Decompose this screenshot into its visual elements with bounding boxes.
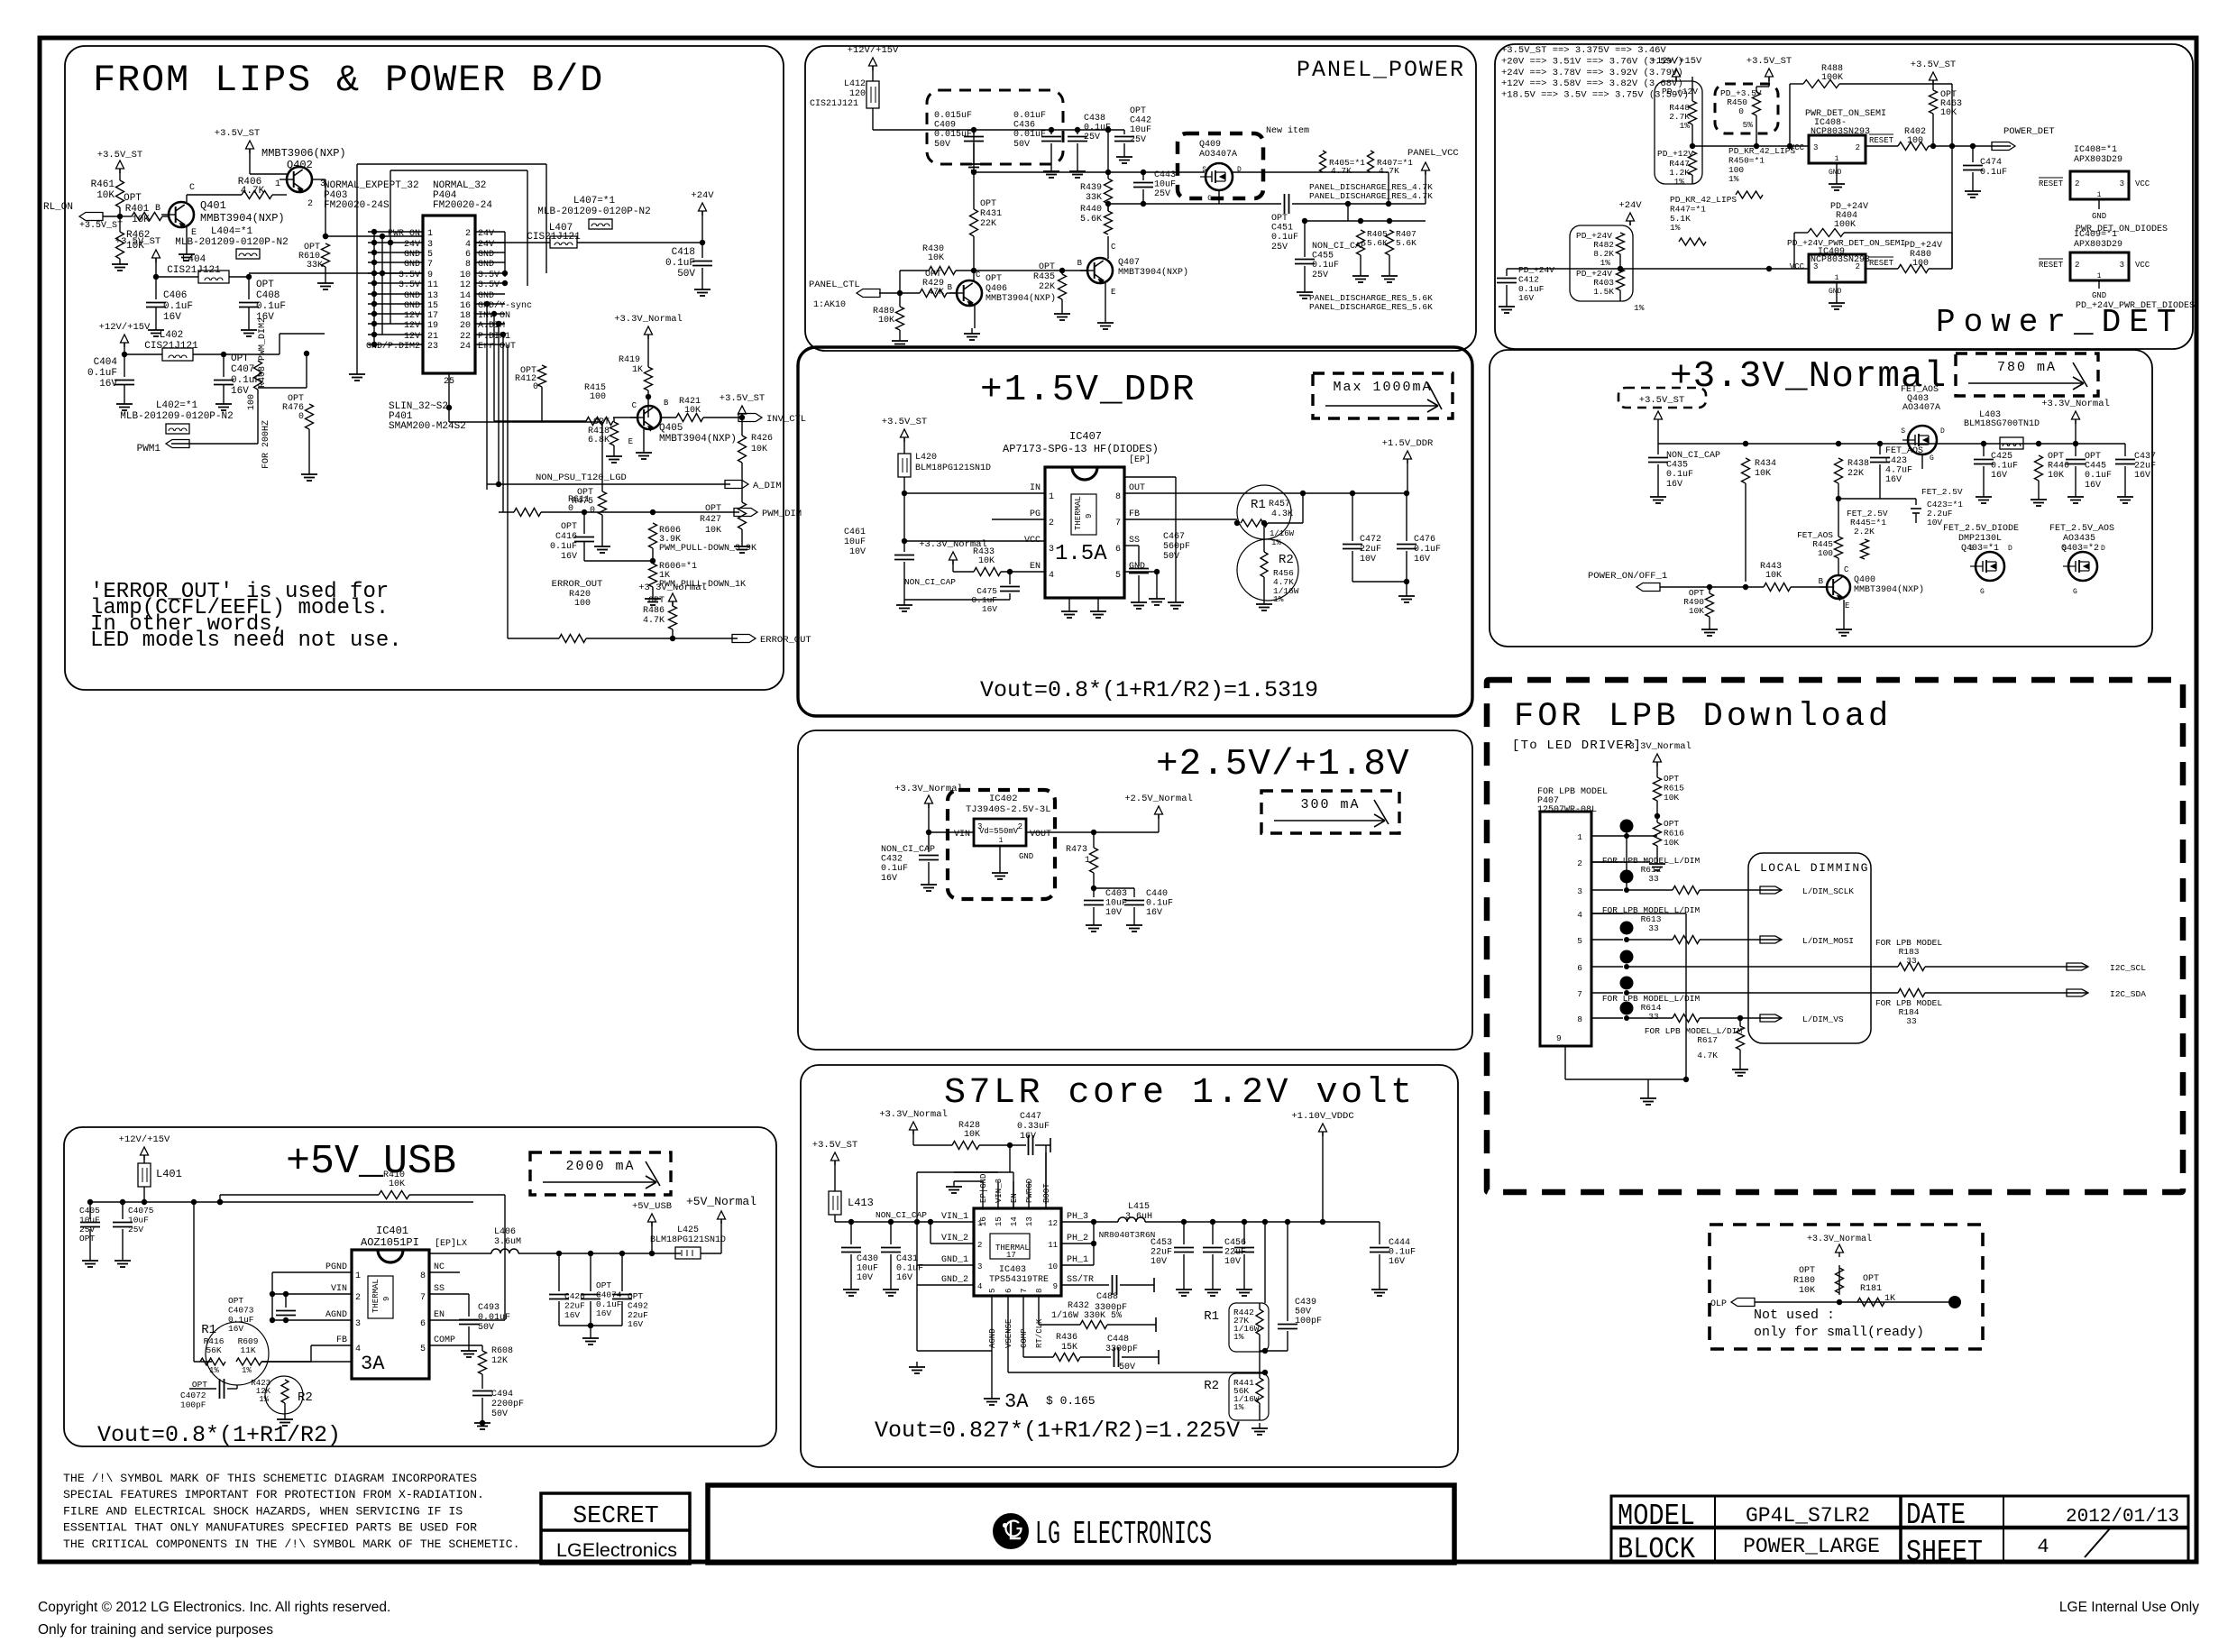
svg-text:SECRET: SECRET xyxy=(573,1502,658,1529)
svg-text:16V: 16V xyxy=(561,552,577,562)
svg-text:VCC: VCC xyxy=(2135,179,2150,188)
svg-text:4.7K: 4.7K xyxy=(1331,166,1352,176)
svg-text:C461: C461 xyxy=(844,528,866,537)
svg-text:100: 100 xyxy=(247,394,257,410)
svg-text:1: 1 xyxy=(1835,274,1839,282)
svg-text:0.1uF: 0.1uF xyxy=(256,301,286,312)
svg-text:+3.5V_ST: +3.5V_ST xyxy=(812,1140,857,1151)
svg-text:OPT: OPT xyxy=(79,1234,95,1244)
svg-text:GND: GND xyxy=(404,291,420,301)
svg-text:10K: 10K xyxy=(978,556,995,566)
svg-text:Vout=0.8*(1+R1/R2)=1.5319: Vout=0.8*(1+R1/R2)=1.5319 xyxy=(980,677,1318,703)
svg-text:[EP]: [EP] xyxy=(1129,454,1151,465)
svg-text:10uF: 10uF xyxy=(857,1264,878,1274)
svg-text:C431: C431 xyxy=(896,1254,918,1264)
svg-text:L425: L425 xyxy=(677,1225,699,1235)
svg-text:BLM18PG121SN1D: BLM18PG121SN1D xyxy=(650,1235,726,1245)
svg-text:C443: C443 xyxy=(1154,170,1176,180)
svg-text:L404: L404 xyxy=(182,254,206,265)
svg-text:FET_2.5V_AOS: FET_2.5V_AOS xyxy=(2049,524,2114,534)
svg-text:MLB-201209-0120P-N2: MLB-201209-0120P-N2 xyxy=(537,206,650,217)
svg-text:8: 8 xyxy=(1115,492,1121,502)
svg-text:3.5V: 3.5V xyxy=(478,280,500,290)
svg-text:PD_+24V: PD_+24V xyxy=(1518,265,1554,275)
svg-text:VIN: VIN xyxy=(954,830,970,840)
svg-text:2: 2 xyxy=(2075,261,2079,270)
svg-text:+3.5V_ST: +3.5V_ST xyxy=(79,221,123,231)
svg-text:Q409: Q409 xyxy=(1199,140,1221,150)
svg-text:PANEL_DISCHARGE_RES_5.6K: PANEL_DISCHARGE_RES_5.6K xyxy=(1309,302,1433,312)
svg-text:11: 11 xyxy=(427,280,438,290)
svg-text:0.1uF: 0.1uF xyxy=(1271,233,1298,243)
svg-text:B: B xyxy=(1077,259,1083,268)
svg-text:D: D xyxy=(1940,427,1945,436)
svg-text:PWR ON: PWR ON xyxy=(388,229,420,239)
svg-text:R419: R419 xyxy=(619,355,640,365)
svg-text:11: 11 xyxy=(1048,1241,1058,1250)
svg-text:1.5K: 1.5K xyxy=(1593,287,1614,297)
svg-text:PANEL_DISCHARGE_RES_4.7K: PANEL_DISCHARGE_RES_4.7K xyxy=(1309,191,1433,201)
svg-text:0: 0 xyxy=(590,506,595,516)
svg-text:NON_CI_CAP: NON_CI_CAP xyxy=(881,845,935,855)
svg-text:VIN_1: VIN_1 xyxy=(941,1212,968,1222)
svg-text:C447: C447 xyxy=(1020,1112,1041,1122)
svg-text:THE /!\ SYMBOL MARK OF THIS SC: THE /!\ SYMBOL MARK OF THIS SCHEMETIC DI… xyxy=(63,1472,477,1485)
svg-text:PANEL_CTL: PANEL_CTL xyxy=(809,280,860,290)
svg-text:10V: 10V xyxy=(1105,908,1122,918)
svg-text:+1.5V_DDR: +1.5V_DDR xyxy=(980,370,1196,411)
svg-text:NR8040T3R6N: NR8040T3R6N xyxy=(1099,1230,1156,1240)
svg-text:C445: C445 xyxy=(2085,462,2106,472)
svg-text:PH_3: PH_3 xyxy=(1067,1212,1088,1222)
svg-text:1%: 1% xyxy=(209,1366,219,1375)
svg-text:+2.5V_Normal: +2.5V_Normal xyxy=(1124,794,1193,804)
svg-text:0.1uF: 0.1uF xyxy=(550,542,577,552)
svg-text:10K: 10K xyxy=(96,190,115,201)
svg-text:1%: 1% xyxy=(259,1395,269,1404)
svg-text:0.01uF: 0.01uF xyxy=(478,1313,510,1323)
svg-text:0.1uF: 0.1uF xyxy=(1991,462,2018,472)
svg-text:1K: 1K xyxy=(1884,1294,1895,1304)
svg-text:12: 12 xyxy=(1048,1219,1058,1228)
svg-text:GND: GND xyxy=(404,301,420,311)
svg-text:33: 33 xyxy=(1648,874,1659,884)
svg-text:C455: C455 xyxy=(1312,252,1334,262)
svg-text:C437: C437 xyxy=(2134,452,2156,462)
svg-text:24V: 24V xyxy=(478,240,494,250)
svg-text:R616: R616 xyxy=(1664,828,1684,838)
svg-text:Copyright © 2012 LG Electronic: Copyright © 2012 LG Electronics. Inc. Al… xyxy=(38,1600,390,1615)
svg-text:100: 100 xyxy=(1818,548,1833,558)
svg-text:FB: FB xyxy=(1129,509,1140,519)
svg-text:R2: R2 xyxy=(298,1390,313,1405)
svg-text:0.1uF: 0.1uF xyxy=(1518,284,1545,294)
svg-text:10uF: 10uF xyxy=(128,1215,149,1225)
svg-text:3: 3 xyxy=(977,1262,982,1271)
svg-text:C476: C476 xyxy=(1414,535,1435,545)
svg-text:Max 1000mA: Max 1000mA xyxy=(1333,380,1432,395)
svg-text:9: 9 xyxy=(1053,1282,1058,1291)
svg-text:R450: R450 xyxy=(1727,97,1747,107)
svg-text:B: B xyxy=(1819,577,1824,586)
svg-text:FROM LIPS & POWER B/D: FROM LIPS & POWER B/D xyxy=(93,59,604,102)
svg-text:+3.3V_Normal: +3.3V_Normal xyxy=(1623,741,1692,752)
svg-text:7: 7 xyxy=(420,1293,426,1303)
svg-text:50V: 50V xyxy=(1295,1308,1311,1317)
svg-text:IC401: IC401 xyxy=(376,1225,408,1237)
svg-text:10V: 10V xyxy=(1360,555,1376,564)
svg-text:EN: EN xyxy=(434,1310,445,1320)
svg-text:NON_PSU_T120_LGD: NON_PSU_T120_LGD xyxy=(536,473,627,483)
svg-text:PH_1: PH_1 xyxy=(1067,1255,1088,1265)
svg-text:NON_CI_CAP: NON_CI_CAP xyxy=(904,577,956,587)
svg-text:L420: L420 xyxy=(915,453,937,463)
svg-text:FB: FB xyxy=(336,1335,347,1345)
svg-text:C444: C444 xyxy=(1389,1238,1410,1248)
svg-text:22uF: 22uF xyxy=(628,1310,648,1320)
svg-text:SMAM200-M24S2: SMAM200-M24S2 xyxy=(389,421,466,432)
svg-text:R450=*1: R450=*1 xyxy=(1728,155,1765,165)
svg-text:DATE: DATE xyxy=(1906,1499,1966,1532)
svg-text:FOR LPB Download: FOR LPB Download xyxy=(1514,698,1892,736)
svg-text:FOR 200HZ: FOR 200HZ xyxy=(261,420,271,469)
svg-text:OPT: OPT xyxy=(2085,452,2101,462)
svg-text:AP7173-SPG-13 HF(DIODES): AP7173-SPG-13 HF(DIODES) xyxy=(1003,443,1159,455)
svg-text:0.015uF: 0.015uF xyxy=(934,111,972,121)
svg-text:VCC: VCC xyxy=(2135,261,2150,270)
svg-text:9: 9 xyxy=(1556,1033,1562,1043)
svg-text:2: 2 xyxy=(2075,179,2079,188)
svg-text:R432: R432 xyxy=(1068,1301,1089,1311)
svg-text:OPT: OPT xyxy=(1664,819,1679,829)
svg-text:IC409=*1: IC409=*1 xyxy=(2074,229,2117,240)
svg-text:Vout=0.827*(1+R1/R2)=1.225V: Vout=0.827*(1+R1/R2)=1.225V xyxy=(875,1418,1240,1444)
svg-text:33: 33 xyxy=(1648,1012,1659,1022)
svg-text:6: 6 xyxy=(420,1319,426,1329)
svg-text:0.015uF: 0.015uF xyxy=(934,130,972,140)
svg-text:10V: 10V xyxy=(849,547,866,557)
svg-text:18: 18 xyxy=(460,311,471,321)
svg-text:+3.3V_Normal: +3.3V_Normal xyxy=(2041,399,2110,409)
svg-text:AGND: AGND xyxy=(325,1310,347,1320)
svg-text:16V: 16V xyxy=(2134,471,2150,481)
svg-text:PGND: PGND xyxy=(325,1262,347,1272)
svg-text:OPT: OPT xyxy=(1664,774,1679,784)
svg-text:C: C xyxy=(1111,243,1116,252)
svg-text:R2: R2 xyxy=(1279,553,1294,567)
svg-text:R401: R401 xyxy=(125,204,150,215)
svg-text:0.1uF: 0.1uF xyxy=(1414,545,1441,555)
svg-text:RESET: RESET xyxy=(1869,259,1894,268)
svg-text:1%: 1% xyxy=(1674,177,1685,187)
svg-text:LGE Internal Use Only: LGE Internal Use Only xyxy=(2059,1600,2199,1615)
svg-text:+3.3V_Normal: +3.3V_Normal xyxy=(1807,1234,1872,1244)
svg-text:1%: 1% xyxy=(1670,223,1681,233)
svg-text:VCC: VCC xyxy=(1790,262,1805,271)
svg-text:E: E xyxy=(1845,601,1849,610)
svg-text:22K: 22K xyxy=(980,219,996,229)
svg-text:300 mA: 300 mA xyxy=(1300,797,1360,812)
svg-text:IC402: IC402 xyxy=(989,794,1018,804)
svg-text:MMBT3904(NXP): MMBT3904(NXP) xyxy=(659,434,737,445)
svg-text:+24V ==> 3.78V ==> 3.92V (3.79: +24V ==> 3.78V ==> 3.92V (3.79V) xyxy=(1501,68,1683,78)
svg-text:GND: GND xyxy=(404,250,420,260)
svg-text:FILRE AND ELECTRICAL SHOCK HAZ: FILRE AND ELECTRICAL SHOCK HAZARDS, WHEN… xyxy=(63,1504,463,1518)
svg-text:L/DIM_SCLK: L/DIM_SCLK xyxy=(1802,886,1854,896)
svg-text:16V: 16V xyxy=(896,1273,912,1283)
svg-text:+5V_Normal: +5V_Normal xyxy=(686,1195,756,1208)
svg-text:COMP: COMP xyxy=(1020,1328,1029,1348)
svg-text:C451: C451 xyxy=(1271,224,1293,234)
svg-text:GND_1: GND_1 xyxy=(941,1255,968,1265)
svg-text:C467: C467 xyxy=(1163,532,1185,542)
svg-text:C440: C440 xyxy=(1146,889,1168,899)
svg-text:8: 8 xyxy=(1035,1289,1044,1293)
svg-text:2012/01/13: 2012/01/13 xyxy=(2066,1507,2179,1528)
svg-text:2: 2 xyxy=(977,1241,982,1250)
svg-text:1K: 1K xyxy=(632,365,643,375)
svg-text:1: 1 xyxy=(1049,492,1054,502)
svg-text:RESET: RESET xyxy=(2039,179,2064,188)
svg-text:SS/TR: SS/TR xyxy=(1067,1274,1094,1285)
svg-text:MMBT3906(NXP): MMBT3906(NXP) xyxy=(261,147,346,160)
svg-text:22uF: 22uF xyxy=(1360,545,1381,555)
svg-text:APX803D29: APX803D29 xyxy=(2074,240,2122,250)
svg-text:R447=*1: R447=*1 xyxy=(1670,204,1706,214)
svg-text:+1.5V_DDR: +1.5V_DDR xyxy=(1382,438,1434,449)
svg-text:ESSENTIAL THAT ONLY MANUFATURE: ESSENTIAL THAT ONLY MANUFATURES SPECFIED… xyxy=(63,1521,477,1535)
svg-text:25V: 25V xyxy=(1154,189,1170,199)
svg-text:1: 1 xyxy=(1577,832,1582,842)
svg-text:R446: R446 xyxy=(2048,462,2069,472)
svg-text:10K: 10K xyxy=(1664,838,1679,848)
svg-text:LG ELECTRONICS: LG ELECTRONICS xyxy=(1035,1516,1212,1553)
svg-text:10: 10 xyxy=(460,271,471,280)
svg-text:THERMAL: THERMAL xyxy=(371,1279,380,1313)
svg-text:2: 2 xyxy=(1577,858,1582,868)
svg-text:3300pF: 3300pF xyxy=(1105,1345,1138,1354)
svg-text:R408 PWM_DIM2: R408 PWM_DIM2 xyxy=(258,317,268,388)
svg-text:OPT: OPT xyxy=(648,596,665,606)
svg-text:NC: NC xyxy=(434,1262,445,1272)
svg-text:10V: 10V xyxy=(1151,1257,1167,1267)
svg-text:I2C_SCL: I2C_SCL xyxy=(2110,963,2146,973)
svg-text:33K: 33K xyxy=(307,261,323,271)
svg-text:3: 3 xyxy=(2120,179,2124,188)
svg-text:PD_+24V_PWR_DET_ON_SEMI: PD_+24V_PWR_DET_ON_SEMI xyxy=(1787,238,1905,248)
svg-text:GND: GND xyxy=(478,250,494,260)
svg-text:BLM18SG700TN1D: BLM18SG700TN1D xyxy=(1964,419,2040,429)
svg-text:3.5V: 3.5V xyxy=(478,271,500,280)
svg-text:0.33uF: 0.33uF xyxy=(1017,1122,1050,1132)
svg-text:C442: C442 xyxy=(1130,116,1151,126)
svg-text:OPT: OPT xyxy=(1799,1266,1815,1276)
svg-text:+24V: +24V xyxy=(691,190,714,201)
svg-text:C409: C409 xyxy=(934,121,956,131)
svg-text:MMBT3904(NXP): MMBT3904(NXP) xyxy=(200,212,285,225)
svg-text:THE CRITICAL COMPONENTS IN THE: THE CRITICAL COMPONENTS IN THE /!\ SYMBO… xyxy=(63,1537,519,1551)
svg-text:25V: 25V xyxy=(1130,135,1146,145)
svg-text:10K: 10K xyxy=(705,526,721,536)
svg-text:0.1uF: 0.1uF xyxy=(87,368,117,379)
svg-text:R1: R1 xyxy=(201,1323,216,1337)
svg-text:OUT: OUT xyxy=(1129,483,1145,493)
svg-text:3A: 3A xyxy=(361,1353,385,1375)
svg-text:25V: 25V xyxy=(1271,243,1288,252)
svg-text:2: 2 xyxy=(1018,822,1022,831)
svg-text:E: E xyxy=(628,437,633,446)
svg-text:10V: 10V xyxy=(1927,518,1942,528)
svg-text:50V: 50V xyxy=(478,1323,494,1333)
svg-text:C474: C474 xyxy=(1980,158,2002,168)
svg-text:33: 33 xyxy=(1906,1016,1917,1026)
svg-text:Q401: Q401 xyxy=(200,199,226,212)
svg-text:15: 15 xyxy=(427,301,438,311)
svg-text:C404: C404 xyxy=(94,357,118,368)
svg-text:5.6K: 5.6K xyxy=(1080,215,1102,225)
svg-text:C439: C439 xyxy=(1295,1298,1316,1308)
svg-text:GND: GND xyxy=(478,260,494,270)
svg-text:DMP2130L: DMP2130L xyxy=(1958,534,2002,544)
svg-text:CIS21J121: CIS21J121 xyxy=(144,341,198,352)
svg-text:R434: R434 xyxy=(1755,459,1776,469)
svg-text:L406: L406 xyxy=(494,1227,516,1237)
svg-text:12: 12 xyxy=(460,280,471,290)
svg-text:+3.3V_Normal: +3.3V_Normal xyxy=(638,583,707,593)
svg-text:1:AK10: 1:AK10 xyxy=(813,300,846,310)
svg-text:14: 14 xyxy=(1010,1216,1019,1226)
svg-text:21: 21 xyxy=(427,332,438,342)
svg-text:RESET: RESET xyxy=(2039,261,2064,270)
svg-text:10K: 10K xyxy=(684,406,701,416)
svg-text:R1: R1 xyxy=(1204,1309,1219,1324)
svg-text:50V: 50V xyxy=(934,140,950,150)
svg-text:D: D xyxy=(2008,545,2012,553)
svg-text:MLB-201209-0120P-N2: MLB-201209-0120P-N2 xyxy=(175,237,288,248)
svg-text:C418: C418 xyxy=(672,247,695,258)
svg-text:AO3407A: AO3407A xyxy=(1902,403,1940,413)
svg-text:5.6K: 5.6K xyxy=(1396,238,1416,248)
svg-text:C492: C492 xyxy=(628,1300,648,1310)
svg-text:+3.5V_ST: +3.5V_ST xyxy=(1911,60,1956,70)
svg-text:0.1uF: 0.1uF xyxy=(881,864,908,874)
svg-text:6: 6 xyxy=(1115,545,1121,555)
svg-text:C430: C430 xyxy=(857,1254,878,1264)
svg-text:56K: 56K xyxy=(206,1345,221,1355)
svg-text:100K: 100K xyxy=(1834,220,1856,230)
svg-text:Q407: Q407 xyxy=(1118,258,1140,268)
svg-text:RL_ON: RL_ON xyxy=(43,202,73,213)
svg-text:3.6uM: 3.6uM xyxy=(494,1237,521,1247)
svg-text:A_DIM: A_DIM xyxy=(753,481,782,491)
svg-text:0.1uF: 0.1uF xyxy=(1980,168,2007,178)
svg-text:3: 3 xyxy=(1813,143,1818,152)
svg-text:1: 1 xyxy=(275,179,280,189)
svg-text:MMBT3904(NXP): MMBT3904(NXP) xyxy=(986,293,1056,304)
svg-text:Not used :: Not used : xyxy=(1754,1308,1835,1323)
svg-text:C456: C456 xyxy=(1224,1238,1246,1248)
svg-text:PWM1: PWM1 xyxy=(137,444,161,454)
svg-text:4: 4 xyxy=(1049,571,1054,581)
svg-text:OPT: OPT xyxy=(986,274,1002,284)
svg-text:11K: 11K xyxy=(240,1345,255,1355)
svg-text:+3.5V_ST: +3.5V_ST xyxy=(1639,395,1684,406)
svg-text:22K: 22K xyxy=(1847,469,1864,479)
svg-text:BLOCK: BLOCK xyxy=(1618,1533,1695,1566)
svg-text:L412: L412 xyxy=(844,79,866,89)
svg-text:E: E xyxy=(1111,288,1115,297)
svg-text:3: 3 xyxy=(1049,545,1054,555)
svg-text:PD_+24V_PWR_DET_DIODES: PD_+24V_PWR_DET_DIODES xyxy=(2076,301,2195,311)
svg-text:50V: 50V xyxy=(677,269,695,280)
svg-text:5.1K: 5.1K xyxy=(1670,214,1691,224)
svg-text:6: 6 xyxy=(1577,963,1582,973)
svg-text:1%: 1% xyxy=(1634,303,1645,313)
svg-text:MMBT3904(NXP): MMBT3904(NXP) xyxy=(1854,584,1924,595)
svg-text:2.2K: 2.2K xyxy=(1854,527,1875,537)
svg-text:AGND: AGND xyxy=(988,1328,997,1348)
svg-text:13: 13 xyxy=(1025,1216,1034,1226)
svg-text:PWRGD: PWRGD xyxy=(1025,1179,1034,1203)
svg-text:25V: 25V xyxy=(79,1225,95,1234)
svg-text:25V: 25V xyxy=(1312,271,1328,280)
svg-text:50V: 50V xyxy=(1119,1363,1135,1372)
svg-text:16V: 16V xyxy=(982,604,997,614)
svg-text:16V: 16V xyxy=(1885,475,1902,485)
svg-text:22K: 22K xyxy=(1039,282,1055,292)
svg-text:C4072: C4072 xyxy=(180,1390,206,1400)
svg-text:10uF: 10uF xyxy=(1154,180,1176,190)
svg-text:7: 7 xyxy=(1020,1289,1029,1293)
svg-text:10uF: 10uF xyxy=(844,537,866,547)
svg-text:3A: 3A xyxy=(1004,1390,1029,1413)
svg-text:1: 1 xyxy=(1085,856,1090,866)
svg-text:OPT: OPT xyxy=(228,1296,243,1306)
svg-text:PD_KR_42_LIPS: PD_KR_42_LIPS xyxy=(1728,146,1795,156)
svg-text:2: 2 xyxy=(1856,262,1860,271)
svg-text:+3.5V_ST: +3.5V_ST xyxy=(97,150,142,161)
svg-text:Q406: Q406 xyxy=(986,284,1007,294)
svg-text:IN: IN xyxy=(1030,483,1041,493)
svg-text:D: D xyxy=(2101,545,2105,553)
svg-text:10K: 10K xyxy=(878,316,894,326)
svg-text:PG: PG xyxy=(1030,509,1041,519)
svg-text:0.1uF: 0.1uF xyxy=(228,1315,254,1325)
svg-text:7: 7 xyxy=(1115,519,1121,528)
svg-text:INV_CTL: INV_CTL xyxy=(766,414,806,425)
svg-text:C406: C406 xyxy=(163,290,187,301)
svg-text:VSENSE: VSENSE xyxy=(1004,1319,1013,1348)
svg-text:MODEL: MODEL xyxy=(1618,1500,1695,1533)
svg-text:L407=*1: L407=*1 xyxy=(573,196,616,206)
svg-text:4.7K: 4.7K xyxy=(1379,166,1399,176)
svg-text:2: 2 xyxy=(355,1293,361,1303)
svg-text:3: 3 xyxy=(355,1319,361,1329)
svg-text:PANEL_VCC: PANEL_VCC xyxy=(1407,148,1459,159)
svg-text:R608: R608 xyxy=(491,1346,513,1356)
svg-text:22uF: 22uF xyxy=(1151,1248,1172,1258)
svg-text:PWM_PULL-DOWN_3.9K: PWM_PULL-DOWN_3.9K xyxy=(659,544,756,554)
svg-text:POWER_LARGE: POWER_LARGE xyxy=(1743,1535,1880,1558)
svg-text:R617: R617 xyxy=(1697,1035,1718,1045)
svg-text:16V: 16V xyxy=(564,1310,580,1320)
svg-text:PD_KR_42_LIPS: PD_KR_42_LIPS xyxy=(1670,195,1737,205)
svg-text:VIN_2: VIN_2 xyxy=(941,1234,968,1244)
svg-text:3.5V: 3.5V xyxy=(399,280,420,290)
svg-text:0.01uF: 0.01uF xyxy=(1013,130,1046,140)
svg-text:1: 1 xyxy=(2097,191,2102,199)
svg-text:C493: C493 xyxy=(478,1303,500,1313)
